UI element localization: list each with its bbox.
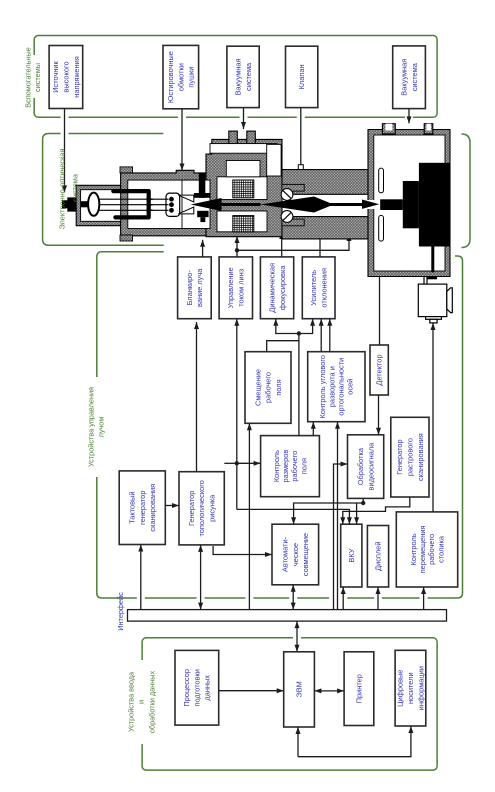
wire Динамическая фокусировка — в колонну [279, 232, 284, 257]
wire Контроль размеров — сборная шина [298, 334, 300, 436]
svg-text:система: система [244, 62, 253, 91]
svg-text:размеров: размеров [281, 450, 290, 483]
svg-text:Бланкиро-: Бланкиро- [185, 270, 194, 306]
block Динамическая фокусировка [260, 257, 293, 319]
chamber ports [382, 124, 432, 134]
block Вакуумная система (верх) [227, 46, 259, 107]
svg-text:Источник: Источник [51, 60, 60, 92]
svg-text:сканирования: сканирования [148, 484, 157, 532]
beam tube (right slab) [282, 170, 368, 195]
svg-text:Генератор: Генератор [187, 491, 196, 526]
block Дисплей [367, 526, 388, 588]
wire Генератор растрового — ВКУ [340, 497, 410, 524]
svg-text:рабочего: рабочего [290, 451, 299, 482]
svg-text:видеосигнала: видеосигнала [366, 442, 375, 491]
wire Детектор — Обработка видеосигнала [376, 395, 381, 435]
svg-text:данных: данных [203, 675, 212, 701]
electron gun: cathode bulb [88, 193, 99, 216]
beam passage through chamber wall [367, 200, 374, 209]
wire Вакуумная система — к камере [407, 109, 412, 124]
block Контроль размеров рабочего поля [261, 436, 320, 497]
block Контроль перемещения рабочего столика [396, 512, 457, 587]
wire узел — ВКУ (длинная) [237, 509, 352, 524]
bus bar Интерфейс [128, 610, 447, 622]
wire Автоматическое совмещение — шина [291, 585, 296, 610]
svg-text:Дисплей: Дисплей [374, 542, 383, 571]
block Смещение рабочего поля [245, 352, 291, 424]
wire Вакуумная система — к патрубку линз [241, 108, 246, 129]
junction узел топологического рисунка [235, 461, 239, 465]
svg-text:подготовки: подготовки [192, 669, 201, 706]
wire шина — Тактовый генератор [138, 545, 143, 610]
wire шина — ВКУ [341, 587, 346, 610]
svg-text:Вакуумная: Вакуумная [234, 58, 243, 95]
wire узел — Управление током линз (стрелка) [234, 319, 239, 464]
block Процессор подготовки данных [175, 650, 219, 725]
electron-optical column walls (grey hatched) [76, 130, 450, 277]
wire обмен с носителями [298, 726, 413, 757]
deflection pole pieces [282, 184, 304, 225]
svg-text:Детектор: Детектор [375, 354, 384, 385]
svg-text:вание луча: вание луча [195, 268, 204, 307]
anode plates [199, 174, 206, 198]
svg-text:Генератор: Генератор [395, 439, 404, 474]
wire Тактовый генератор — Генератор рисунка [165, 503, 179, 508]
svg-text:носители: носители [406, 672, 415, 704]
specimen chamber [368, 130, 450, 277]
wire камера — Детектор [379, 277, 381, 346]
svg-text:система: система [71, 173, 80, 202]
svg-text:Динамическая: Динамическая [268, 263, 277, 313]
svg-text:информации: информации [416, 666, 425, 710]
svg-text:Контроль: Контроль [409, 533, 418, 565]
wire Контроль углового — Усилитель 2 [327, 319, 332, 352]
svg-text:напряжения: напряжения [72, 56, 81, 98]
svg-text:Электронно-оптическая: Электронно-оптическая [58, 149, 67, 230]
svg-text:поля: поля [299, 458, 308, 474]
deflection coils [281, 189, 293, 201]
wire ЭВМ — Цифровые носители [296, 727, 301, 757]
wire шина — Обработка видеосигнала [334, 462, 348, 610]
svg-text:обработки данных: обработки данных [148, 670, 157, 733]
svg-text:система: система [410, 62, 419, 91]
block Генератор растрового сканирования [391, 417, 429, 497]
wire узел — Управление током линз [236, 463, 238, 509]
svg-text:ВКУ: ВКУ [347, 548, 356, 562]
svg-text:столика: столика [436, 535, 445, 563]
svg-text:Обработка: Обработка [356, 447, 365, 485]
gun: main housing [121, 170, 206, 236]
block Автоматическое совмещение [272, 524, 319, 585]
lens section housing [206, 139, 282, 236]
svg-text:рабочего: рабочего [427, 534, 436, 565]
wire Бланкирование — в колонну [200, 240, 205, 257]
svg-text:ЭВМ: ЭВМ [295, 681, 304, 697]
junction узел видеосигнала [361, 501, 365, 505]
wire Генератор рисунка — шина [198, 545, 203, 610]
wire узел — ВКУ [354, 503, 359, 524]
block Управление током линз [219, 257, 252, 319]
electron gun: filament leads [99, 199, 169, 210]
svg-text:Управление: Управление [226, 267, 235, 308]
HV terminal [62, 197, 76, 211]
block Вакуумная система (низ) [393, 46, 426, 109]
junction узел фокусировки-отклонения [297, 331, 301, 335]
electron gun: HV lead stub [81, 201, 88, 207]
svg-text:пушки: пушки [187, 67, 196, 88]
svg-text:Тактовый: Тактовый [128, 492, 137, 524]
wire шина — Смещение поля [247, 423, 252, 609]
block Обработка видеосигнала [348, 435, 384, 499]
label Устройства управления лучом [91, 377, 103, 477]
block Юстировочные обмотки пушки [163, 45, 199, 108]
alignment coil grids [233, 180, 254, 198]
block ВКУ [341, 524, 362, 587]
junction узел линз [235, 248, 239, 252]
wire Обработка — узел вывода [362, 498, 364, 503]
label Устройства ввода и обработки данных [137, 660, 148, 744]
section frame: Устройства ввода и обработки данных [142, 638, 437, 770]
gun flange tabs [120, 167, 133, 241]
wire узел — Контроль размеров [237, 461, 261, 466]
svg-text:Усилитель: Усилитель [309, 270, 318, 306]
svg-text:Принтер: Принтер [355, 674, 364, 703]
wire Управление линзами — верхняя линза [235, 236, 240, 250]
wire Генератор рисунка — Бланкирование [194, 322, 199, 472]
wire шина — Контроль углового [335, 422, 340, 610]
frame gaps at wire crossings [61, 115, 69, 119]
wire шина — Контроль перемещения [421, 587, 426, 610]
svg-text:генератор: генератор [138, 490, 147, 524]
block Бланкирование луча [178, 257, 212, 319]
svg-text:обмотки: обмотки [176, 63, 185, 91]
wire Контроль углового — Усилитель 1 [319, 319, 324, 352]
block Детектор [370, 345, 388, 395]
wire Контроль перемещения — привод столика [431, 323, 436, 512]
section frame: Электронно-оптическая система [43, 134, 164, 246]
wire ЭВМ — Принтер [314, 688, 344, 693]
svg-text:растрового: растрового [406, 438, 415, 476]
svg-text:Автомати-: Автомати- [281, 536, 290, 572]
svg-text:топологического: топологического [197, 480, 206, 536]
wire Смещение — сборная шина [267, 341, 299, 352]
wire узел — Усилитель отклонения [299, 319, 315, 334]
wire Генератор рисунка — Автоматическое совмещение [213, 546, 272, 557]
wire Генератор рисунка — узел данных [224, 462, 237, 464]
svg-text:Цифровые: Цифровые [396, 670, 405, 707]
block Источник высокого напряжения [49, 46, 83, 109]
section frame: Вспомогательные системы [34, 36, 437, 118]
svg-text:Устройства ввода: Устройства ввода [127, 671, 136, 732]
svg-text:рисунка: рисунка [208, 494, 217, 522]
svg-text:высокого: высокого [62, 61, 71, 92]
wire узел — Динамическая фокусировка [273, 319, 299, 334]
svg-text:током линз: током линз [237, 268, 246, 306]
pumping port ears [229, 131, 238, 144]
svg-text:разворота и: разворота и [327, 366, 336, 407]
svg-text:системы: системы [33, 63, 42, 92]
wire ЭВМ — шина [295, 621, 300, 652]
electron gun: grid cup [166, 193, 180, 216]
svg-text:Контроль: Контроль [272, 450, 281, 482]
block Цифровые носители информации [395, 650, 426, 726]
section frame: Устройства управления лучом [97, 252, 463, 598]
svg-text:Клапан: Клапан [297, 64, 306, 89]
block Усилитель отклонения [302, 257, 335, 319]
wire узел — Автоматическое совмещение [291, 503, 363, 524]
gun: cathode housing [76, 185, 120, 225]
svg-text:лучом: лучом [97, 417, 106, 438]
svg-text:Контроль углового: Контроль углового [318, 355, 327, 419]
block Генератор топологического рисунка [179, 472, 224, 545]
svg-text:фокусировка: фокусировка [278, 265, 287, 310]
wire Контроль размеров — Контроль углового [311, 422, 316, 436]
wire Источник высокого напряжения — к пушке [62, 109, 67, 193]
svg-text:Процессор: Процессор [182, 669, 191, 707]
svg-text:поля: поля [274, 379, 283, 395]
electron gun: heater electrode [113, 191, 148, 217]
wire Управление линзами — шина вправо [236, 250, 238, 257]
stage drive motor [418, 284, 452, 323]
svg-text:Смещение: Смещение [253, 369, 262, 406]
svg-text:ортогональности: ортогональности [337, 358, 346, 416]
specimen stage [380, 199, 403, 210]
stage drive shaft [431, 247, 434, 273]
block Принтер [344, 652, 374, 726]
svg-text:сканирования: сканирования [416, 433, 425, 481]
wire Клапан — к колонне [300, 108, 302, 165]
svg-text:Вакуумная: Вакуумная [400, 59, 409, 96]
svg-text:Устройства управления: Устройства управления [87, 387, 96, 467]
svg-text:рабочего: рабочего [264, 372, 273, 403]
wire шина — Дисплей [376, 587, 381, 610]
svg-text:отклонения: отклонения [319, 268, 328, 308]
wire Управление линзами — нижняя линза [237, 234, 352, 250]
svg-text:Юстировочные: Юстировочные [166, 51, 175, 103]
label Вспомогательные системы [33, 55, 43, 98]
svg-text:осей: осей [346, 379, 355, 395]
block ЭВМ [284, 652, 315, 727]
svg-text:и: и [137, 700, 146, 704]
block Клапан [286, 46, 318, 107]
svg-text:совмещение: совмещение [301, 533, 310, 576]
Wehnelt aperture [178, 195, 194, 202]
svg-text:перемещения: перемещения [418, 525, 427, 573]
chamber detectors [379, 168, 384, 193]
wire Процессор — ЭВМ [219, 688, 284, 693]
svg-text:ческое: ческое [291, 543, 300, 566]
svg-text:Вспомогательные: Вспомогательные [24, 47, 33, 107]
wire Усилитель отклонения — в колонну [318, 232, 323, 257]
wire Юстировочные обмотки — к колонне [180, 109, 185, 171]
svg-text:Интерфейс: Интерфейс [116, 592, 125, 631]
block Контроль углового разворота и ортогональности осей [308, 352, 365, 422]
beam tube (left slab) [282, 217, 368, 239]
block Тактовый генератор сканирования [119, 471, 165, 545]
electron beam [191, 198, 222, 211]
